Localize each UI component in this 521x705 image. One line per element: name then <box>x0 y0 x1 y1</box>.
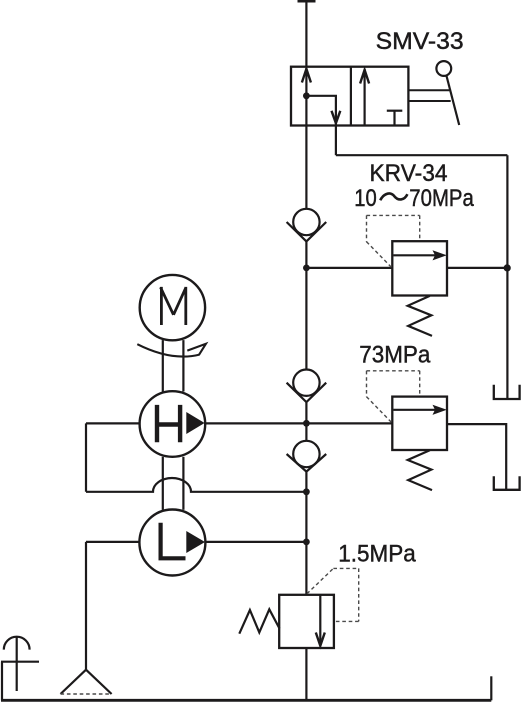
wire L suction left <box>86 541 139 543</box>
pump H <box>140 391 206 457</box>
SMV-33 left position up arrow <box>302 68 311 126</box>
svg-text:KRV-34: KRV-34 <box>370 160 448 187</box>
tank right wall <box>490 676 492 700</box>
73MPa dashed callout <box>367 371 420 423</box>
valve SMV-33 body <box>291 67 408 126</box>
motor M <box>140 275 205 340</box>
svg-text:SMV-33: SMV-33 <box>376 28 464 55</box>
check valve CV2 <box>287 370 327 403</box>
wire CV3 down <box>305 472 307 595</box>
SMV-33 left position branch with down arrow <box>303 92 340 125</box>
node junction right rail <box>504 264 511 271</box>
node junction to KRV <box>303 265 310 272</box>
wire left rail L to strainer <box>85 542 87 670</box>
relief valve 73MPa body <box>392 397 447 450</box>
tank top left edge <box>1 661 39 663</box>
wire left rail H <box>85 423 87 491</box>
breather cap <box>4 637 30 691</box>
KRV-34 spring <box>408 296 432 336</box>
svg-text:70MPa: 70MPa <box>409 185 474 212</box>
tank upper right <box>494 385 520 399</box>
check valve CV3 <box>287 441 327 472</box>
wire horizontal to right rail <box>336 154 508 156</box>
wire to KRV-34 inlet <box>306 267 392 269</box>
SMV-33 right position blocked port T <box>387 111 403 125</box>
wire H suction left <box>86 422 140 424</box>
wire valve tank branch down <box>335 126 337 156</box>
wire 1.5MPa to tank bottom <box>305 648 307 700</box>
node junction L outlet <box>303 539 310 546</box>
svg-text:73MPa: 73MPa <box>359 341 431 368</box>
strainer <box>61 670 112 694</box>
1.5MPa spring <box>239 609 279 633</box>
KRV-34 internal arrow <box>394 250 447 260</box>
wire below valve main line <box>305 126 307 209</box>
1.5MPa dashed callout <box>307 568 359 621</box>
wire main line top segment <box>305 0 307 67</box>
wire right rail down to tank <box>506 155 508 398</box>
wire CV2 to junction <box>305 402 307 441</box>
SMV-33 lever rod lines <box>408 90 450 101</box>
wire top stub crossbar <box>298 0 316 3</box>
rotation arrow <box>137 344 206 357</box>
SMV-33 right position up arrow <box>360 69 369 126</box>
svg-text:10: 10 <box>354 185 377 212</box>
SMV-33 lever handle <box>436 61 459 125</box>
tank left wall <box>1 662 3 701</box>
relief valve 1.5MPa body <box>279 595 334 648</box>
shaft M to H <box>163 340 184 391</box>
pump L <box>139 510 205 576</box>
wire crossover with bump <box>86 478 306 492</box>
73MPa spring <box>408 450 432 490</box>
check valve CV1 <box>287 209 327 242</box>
wire H outlet to junction <box>205 422 306 424</box>
tank bottom line <box>1 699 491 702</box>
svg-text:1.5MPa: 1.5MPa <box>338 541 416 568</box>
1.5MPa internal down arrow <box>316 595 325 646</box>
relief valve KRV-34 body <box>392 241 447 295</box>
shaft H to L <box>163 457 184 510</box>
73MPa outlet wire <box>447 424 506 489</box>
wire CV1 to junction <box>305 241 307 369</box>
node junction pump H line <box>303 420 310 427</box>
wire junction to 73MPa valve <box>306 422 392 424</box>
73MPa internal arrow <box>394 405 447 415</box>
wire L outlet to junction <box>205 541 306 543</box>
KRV-34 dashed pilot callout <box>367 215 420 267</box>
tank lower right <box>494 476 520 490</box>
KRV-34 outlet wire <box>447 267 507 269</box>
label 10~70MPa <box>354 185 474 212</box>
node junction L line up <box>303 488 310 495</box>
